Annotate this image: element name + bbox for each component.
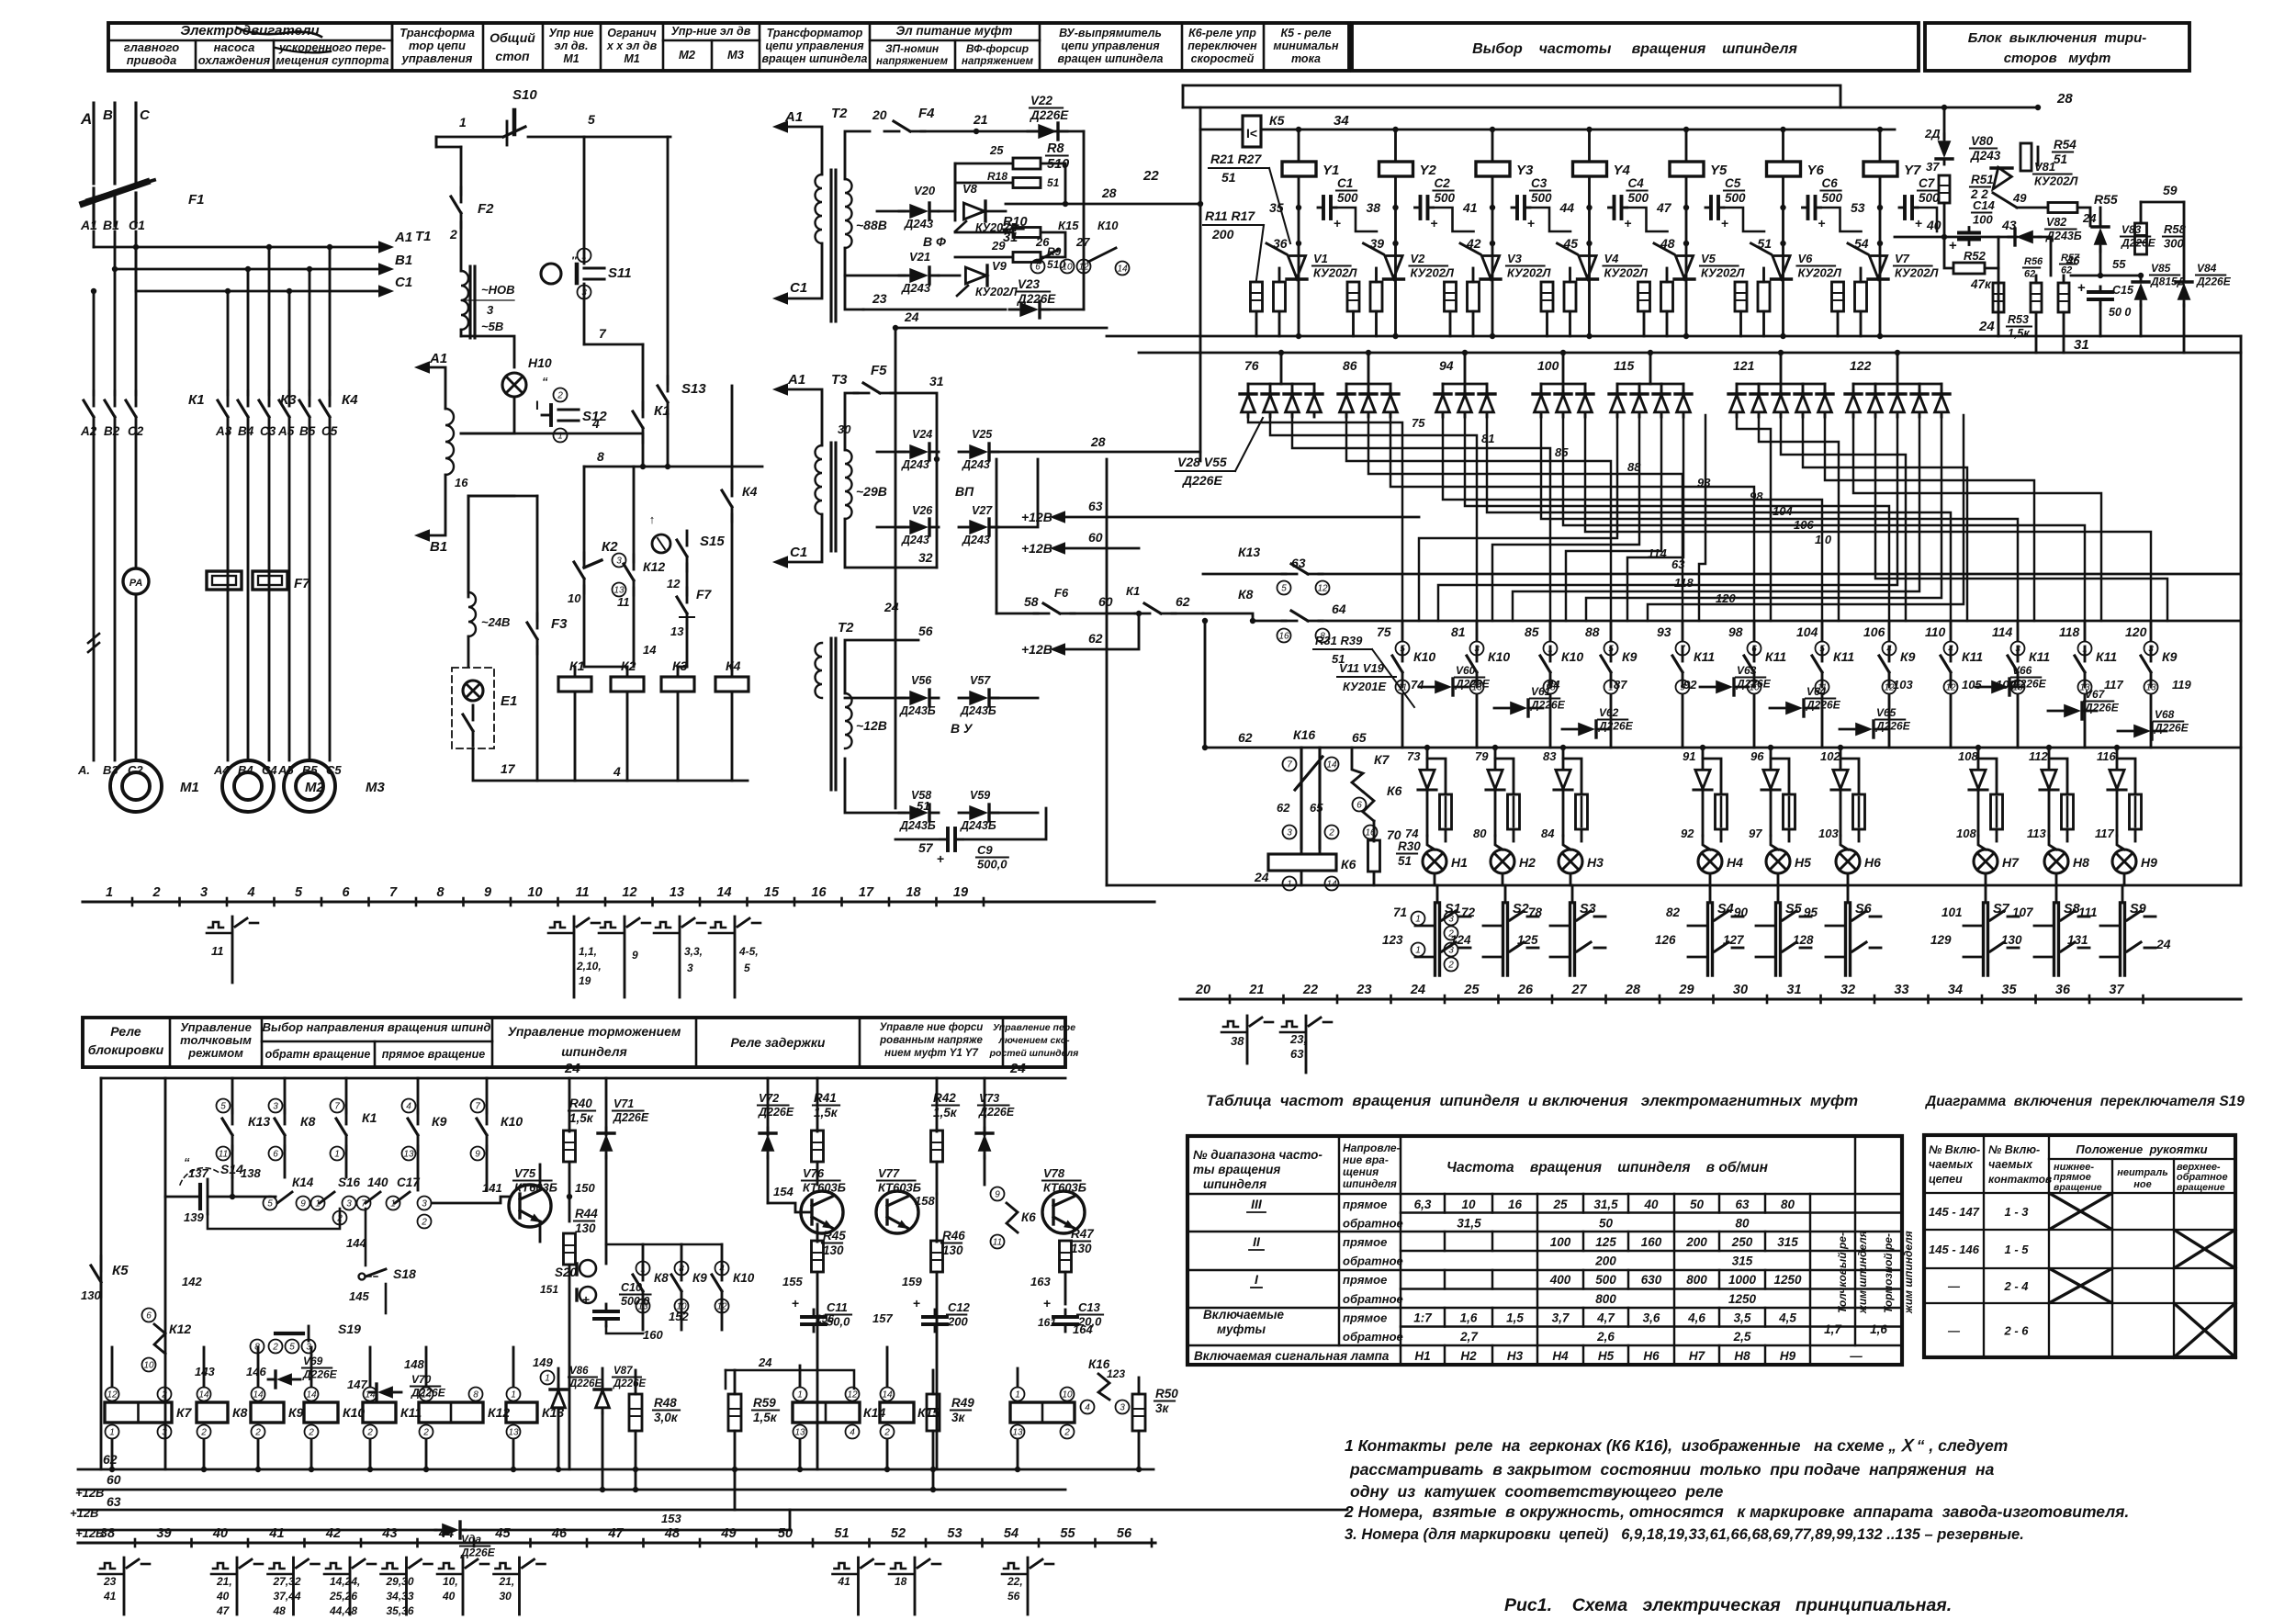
contact K4 feed bbox=[731, 514, 734, 670]
svg-text:Н10: Н10 bbox=[528, 355, 552, 370]
svg-text:S10: S10 bbox=[512, 87, 537, 103]
svg-text:75: 75 bbox=[1377, 624, 1391, 639]
svg-text:Д226Е: Д226Е bbox=[568, 1378, 602, 1389]
contact group at circuit 54 bbox=[1004, 1563, 1019, 1569]
svg-text:14: 14 bbox=[253, 1390, 264, 1401]
svg-text:К15: К15 bbox=[1058, 219, 1079, 232]
wire T1 left column bbox=[435, 137, 438, 147]
svg-text:1250: 1250 bbox=[1728, 1292, 1757, 1306]
contact F7 thermal bbox=[686, 564, 689, 595]
svg-text:К1: К1 bbox=[569, 658, 585, 673]
svg-text:2,7: 2,7 bbox=[1459, 1330, 1479, 1344]
svg-text:2,10,: 2,10, bbox=[576, 960, 602, 973]
svg-text:V77: V77 bbox=[878, 1166, 900, 1180]
svg-text:ты вращения: ты вращения bbox=[1193, 1163, 1280, 1176]
svg-text:2: 2 bbox=[1064, 1428, 1070, 1438]
break mark on A2 bbox=[88, 634, 99, 643]
diode V62 bbox=[1578, 723, 1595, 737]
svg-text:№ Вклю-: № Вклю- bbox=[1988, 1143, 2040, 1156]
svg-text:М3: М3 bbox=[366, 780, 385, 795]
svg-text:ВУ-выпрямитель: ВУ-выпрямитель bbox=[1059, 27, 1162, 39]
svg-text:48: 48 bbox=[273, 1604, 287, 1617]
contact group at circuit 41 bbox=[270, 1563, 285, 1569]
svg-text:V23: V23 bbox=[1018, 277, 1041, 291]
X mark row 2 bbox=[2174, 1230, 2235, 1268]
svg-text:V24: V24 bbox=[912, 428, 932, 441]
diode group node 122 bbox=[1853, 383, 1941, 386]
svg-text:К12: К12 bbox=[643, 559, 665, 574]
resistor R53 bbox=[1993, 283, 2004, 312]
svg-text:103: 103 bbox=[1818, 827, 1839, 840]
svg-text:V60: V60 bbox=[1456, 664, 1476, 677]
svg-text:57: 57 bbox=[918, 840, 934, 855]
svg-text:Д243Б: Д243Б bbox=[960, 819, 996, 832]
svg-text:обратное: обратное bbox=[1343, 1254, 1403, 1268]
lamp E1 in dashed box bbox=[452, 668, 494, 748]
svg-text:161: 161 bbox=[1038, 1316, 1056, 1329]
svg-text:+: + bbox=[1527, 216, 1535, 231]
svg-text:А1: А1 bbox=[394, 230, 412, 245]
svg-text:S15: S15 bbox=[700, 534, 725, 549]
svg-text:126: 126 bbox=[1655, 933, 1676, 947]
wire 28 top right bbox=[1183, 107, 2038, 109]
selector switch S1 bbox=[1436, 885, 1439, 903]
svg-text:62: 62 bbox=[1238, 730, 1253, 745]
svg-text:141: 141 bbox=[482, 1181, 502, 1195]
svg-text:К10: К10 bbox=[501, 1114, 523, 1129]
svg-text:КУ202Л: КУ202Л bbox=[975, 286, 1018, 298]
svg-text:Н1: Н1 bbox=[1451, 855, 1468, 870]
svg-text:28: 28 bbox=[1101, 186, 1117, 200]
svg-text:+: + bbox=[1334, 216, 1341, 231]
svg-text:73: 73 bbox=[1407, 749, 1421, 763]
svg-text:3,5: 3,5 bbox=[1734, 1311, 1751, 1325]
svg-text:3: 3 bbox=[422, 1199, 427, 1209]
wire mesh staircase bbox=[1248, 415, 1402, 621]
svg-text:500: 500 bbox=[1337, 191, 1358, 205]
svg-text:F2: F2 bbox=[478, 201, 494, 217]
svg-text:КУ201Е: КУ201Е bbox=[1343, 680, 1386, 693]
svg-text:Включаемые: Включаемые bbox=[1203, 1308, 1285, 1322]
svg-text:обратное: обратное bbox=[1343, 1217, 1403, 1231]
diode group node 115 bbox=[1617, 383, 1683, 386]
X mark row 3 bbox=[2049, 1268, 2112, 1303]
svg-text:тока: тока bbox=[1291, 52, 1321, 65]
svg-text:5: 5 bbox=[267, 1199, 273, 1209]
svg-text:К5: К5 bbox=[112, 1263, 129, 1278]
svg-text:4-5,: 4-5, bbox=[738, 945, 759, 958]
svg-text:9: 9 bbox=[632, 949, 638, 962]
svg-text:93: 93 bbox=[1697, 476, 1711, 489]
svg-text:56: 56 bbox=[1117, 1526, 1132, 1541]
svg-text:1000: 1000 bbox=[1728, 1273, 1757, 1287]
diode group node 94 bbox=[1443, 383, 1487, 386]
svg-text:120: 120 bbox=[2125, 624, 2147, 639]
transformer T2 secondary coil bbox=[845, 179, 852, 248]
svg-text:КУ202Л: КУ202Л bbox=[1411, 266, 1455, 280]
svg-text:17: 17 bbox=[501, 761, 516, 776]
contact K1 sym bbox=[345, 1078, 348, 1113]
svg-text:200: 200 bbox=[947, 1315, 968, 1329]
svg-text:1 0: 1 0 bbox=[1815, 533, 1832, 546]
svg-text:6: 6 bbox=[1035, 263, 1041, 273]
svg-text:30: 30 bbox=[1733, 983, 1748, 997]
svg-text:13: 13 bbox=[508, 1428, 519, 1438]
svg-text:80: 80 bbox=[1735, 1217, 1750, 1231]
svg-text:42: 42 bbox=[325, 1526, 341, 1541]
wire bus C1 bbox=[135, 231, 138, 291]
bus 31 bbox=[1139, 352, 2241, 354]
damping resistors R25 R15 bbox=[1638, 282, 1650, 311]
diode V60 bbox=[1435, 681, 1452, 694]
svg-text:800: 800 bbox=[1595, 1292, 1616, 1306]
wire from VU to right bbox=[1106, 459, 1109, 885]
svg-text:24: 24 bbox=[1410, 983, 1425, 997]
svg-text:А: А bbox=[80, 110, 92, 128]
diode V84 bbox=[2178, 283, 2191, 300]
relay K5 current coil bbox=[1200, 129, 1243, 131]
transformer T3 core bbox=[829, 443, 832, 551]
wire bottom of T1 section bbox=[473, 748, 748, 781]
svg-text:V26: V26 bbox=[912, 504, 933, 517]
diodes V58 V59 bbox=[845, 759, 905, 813]
svg-text:130: 130 bbox=[823, 1243, 844, 1257]
svg-text:жим шпинделя: жим шпинделя bbox=[1856, 1231, 1869, 1314]
svg-text:500: 500 bbox=[1725, 191, 1746, 205]
svg-text:24: 24 bbox=[564, 1061, 580, 1076]
svg-text:43: 43 bbox=[381, 1526, 397, 1541]
svg-text:28: 28 bbox=[2056, 91, 2073, 107]
svg-text:R11 R17: R11 R17 bbox=[1205, 208, 1255, 223]
svg-text:24: 24 bbox=[1009, 1061, 1026, 1076]
header cell: Блок выключения тиристоров муфт bbox=[1925, 23, 2189, 71]
svg-text:27,32: 27,32 bbox=[273, 1575, 301, 1588]
svg-text:~НОВ: ~НОВ bbox=[481, 283, 514, 297]
svg-text:2: 2 bbox=[308, 1428, 314, 1438]
svg-text:97: 97 bbox=[1749, 827, 1762, 840]
svg-text:27: 27 bbox=[1075, 235, 1090, 249]
svg-text:V20: V20 bbox=[914, 184, 936, 197]
svg-text:9: 9 bbox=[300, 1199, 306, 1209]
svg-text:Д226Е: Д226Е bbox=[2011, 678, 2047, 691]
svg-text:R48: R48 bbox=[654, 1396, 677, 1410]
svg-text:ростей шпинделя: ростей шпинделя bbox=[989, 1048, 1079, 1059]
damping resistors R24 R14 bbox=[1541, 282, 1553, 311]
svg-text:1: 1 bbox=[1415, 946, 1421, 956]
bus junction dots bbox=[109, 1467, 115, 1472]
capacitor C1 bbox=[1298, 176, 1300, 336]
svg-text:107: 107 bbox=[2012, 906, 2034, 919]
svg-text:А1: А1 bbox=[429, 351, 447, 366]
svg-text:V25: V25 bbox=[972, 428, 993, 441]
svg-text:прямое: прямое bbox=[1343, 1198, 1387, 1211]
svg-text:21,: 21, bbox=[216, 1575, 232, 1588]
svg-text:144: 144 bbox=[346, 1236, 366, 1250]
diode group node 121 bbox=[1737, 383, 1825, 386]
svg-text:К1: К1 bbox=[1126, 584, 1140, 598]
svg-text:88: 88 bbox=[1627, 460, 1641, 474]
svg-text:Д243: Д243 bbox=[901, 534, 929, 546]
svg-text:2: 2 bbox=[161, 1390, 167, 1401]
svg-text:Выбор направления вращения шп: Выбор направления вращения шпинд bbox=[263, 1020, 491, 1034]
wire bus B1 bbox=[114, 231, 117, 269]
wire to node 3 bbox=[461, 299, 514, 301]
svg-text:S20: S20 bbox=[555, 1266, 578, 1279]
svg-text:1: 1 bbox=[459, 115, 467, 129]
svg-text:148: 148 bbox=[404, 1357, 424, 1371]
svg-text:К6: К6 bbox=[1387, 783, 1402, 798]
wire node 4 bbox=[461, 433, 643, 435]
svg-text:51: 51 bbox=[2054, 152, 2067, 166]
svg-text:лючением ско-: лючением ско- bbox=[997, 1035, 1070, 1046]
svg-text:20: 20 bbox=[1195, 983, 1210, 997]
svg-text:С1: С1 bbox=[1337, 176, 1353, 190]
svg-text:переключен: переключен bbox=[1187, 39, 1257, 52]
svg-text:режимом: режимом bbox=[187, 1046, 243, 1060]
bus 24 top of control section bbox=[101, 1077, 1065, 1080]
circuit number scale 38-56 bbox=[78, 1541, 1155, 1544]
thyristor V81 bbox=[2037, 147, 2040, 165]
svg-text:11: 11 bbox=[575, 885, 589, 900]
svg-text:К6: К6 bbox=[1021, 1210, 1036, 1224]
svg-text:121: 121 bbox=[1733, 358, 1755, 373]
svg-text:138: 138 bbox=[241, 1166, 261, 1180]
svg-text:Д243: Д243 bbox=[901, 458, 929, 471]
svg-text:47: 47 bbox=[1656, 200, 1672, 215]
svg-text:В1: В1 bbox=[103, 218, 119, 232]
svg-text:F3: F3 bbox=[551, 616, 568, 632]
svg-text:шпинделя: шпинделя bbox=[1343, 1179, 1397, 1190]
svg-text:21: 21 bbox=[973, 112, 988, 127]
svg-text:Н3: Н3 bbox=[1507, 1349, 1524, 1363]
svg-text:54: 54 bbox=[1004, 1526, 1019, 1541]
svg-text:Н5: Н5 bbox=[1598, 1349, 1615, 1363]
contact group 1,1 2,10 19 bbox=[550, 922, 565, 928]
electromagnetic clutch coil Y5 bbox=[1683, 127, 1689, 132]
svg-text:125: 125 bbox=[1517, 933, 1538, 947]
svg-text:34: 34 bbox=[1334, 113, 1349, 129]
selector switch S8 bbox=[2055, 885, 2058, 903]
svg-text:В4: В4 bbox=[238, 424, 254, 438]
svg-text:2: 2 bbox=[152, 885, 160, 900]
svg-text:С14: С14 bbox=[1973, 198, 1996, 212]
svg-text:С7: С7 bbox=[1919, 176, 1936, 190]
svg-text:28: 28 bbox=[1090, 434, 1106, 449]
transformer T2b secondary ~12V bbox=[845, 693, 852, 748]
svg-text:2,5: 2,5 bbox=[1733, 1330, 1751, 1344]
svg-text:V27: V27 bbox=[972, 504, 993, 517]
svg-text:1: 1 bbox=[545, 1374, 550, 1384]
svg-text:27: 27 bbox=[1570, 983, 1587, 997]
header cell: Выбор частоты вращения шпинделя bbox=[1352, 23, 1919, 71]
svg-text:А1: А1 bbox=[784, 109, 803, 125]
svg-text:С1: С1 bbox=[790, 280, 807, 296]
svg-text:14: 14 bbox=[306, 1390, 317, 1401]
svg-text:щения: щения bbox=[1343, 1165, 1379, 1178]
svg-text:М1: М1 bbox=[563, 52, 579, 65]
svg-text:3к: 3к bbox=[951, 1411, 966, 1424]
svg-text:84: 84 bbox=[1547, 678, 1560, 692]
svg-text:прямое: прямое bbox=[1343, 1311, 1387, 1325]
contact K5 blocking bbox=[100, 1282, 103, 1297]
svg-text:2: 2 bbox=[1447, 929, 1454, 939]
svg-text:400: 400 bbox=[1549, 1273, 1571, 1287]
svg-text:сторов муфт: сторов муфт bbox=[2004, 51, 2111, 66]
svg-text:10: 10 bbox=[527, 885, 542, 900]
svg-text:К11: К11 bbox=[2096, 649, 2117, 664]
svg-text:цепеи: цепеи bbox=[1929, 1173, 1963, 1186]
svg-text:79: 79 bbox=[1475, 749, 1489, 763]
contact group at circuit 44 bbox=[439, 1563, 454, 1569]
resistor R59 bbox=[728, 1394, 741, 1431]
diode V83 bbox=[2094, 228, 2108, 245]
motor feeder wires bbox=[93, 428, 96, 760]
svg-text:Напровле-: Напровле- bbox=[1343, 1142, 1401, 1154]
svg-text:Д226Е: Д226Е bbox=[2084, 702, 2120, 714]
svg-text:V81: V81 bbox=[2034, 160, 2055, 174]
svg-text:130: 130 bbox=[575, 1221, 596, 1235]
svg-text:12: 12 bbox=[622, 885, 636, 900]
svg-text:9: 9 bbox=[475, 1150, 480, 1160]
svg-text:контактов: контактов bbox=[1988, 1173, 2052, 1186]
svg-text:чаемых: чаемых bbox=[1988, 1158, 2033, 1171]
svg-text:56: 56 bbox=[1007, 1590, 1020, 1603]
svg-text:↑: ↑ bbox=[649, 512, 656, 526]
svg-text:4: 4 bbox=[850, 1428, 855, 1438]
svg-text:К13: К13 bbox=[1238, 545, 1260, 559]
svg-text:500: 500 bbox=[1822, 191, 1843, 205]
svg-text:58: 58 bbox=[1024, 594, 1039, 609]
svg-text:500 0: 500 0 bbox=[621, 1295, 649, 1308]
transformer T3 primary bbox=[816, 445, 823, 514]
svg-text:привода: привода bbox=[127, 53, 177, 67]
relay coil К8 bbox=[197, 1402, 228, 1423]
svg-text:Д243: Д243 bbox=[904, 217, 934, 231]
svg-text:Н5: Н5 bbox=[1795, 855, 1811, 870]
svg-text:III: III bbox=[1251, 1197, 1263, 1211]
svg-text:5: 5 bbox=[744, 962, 750, 974]
svg-text:~5В: ~5В bbox=[481, 320, 503, 333]
svg-text:51: 51 bbox=[834, 1526, 849, 1541]
svg-text:V5: V5 bbox=[1701, 252, 1716, 265]
svg-text:13: 13 bbox=[670, 624, 684, 638]
resistor R50 bbox=[1132, 1394, 1145, 1431]
svg-text:7: 7 bbox=[334, 1102, 340, 1112]
svg-text:+: + bbox=[1625, 216, 1632, 231]
contact group at circuit 38 bbox=[100, 1563, 115, 1569]
svg-text:2: 2 bbox=[884, 1428, 890, 1438]
svg-text:Н9: Н9 bbox=[2141, 855, 2157, 870]
svg-text:96: 96 bbox=[1750, 749, 1764, 763]
svg-text:вращен шпиндела: вращен шпиндела bbox=[1058, 52, 1164, 65]
svg-text:85: 85 bbox=[1525, 624, 1539, 639]
svg-text:К4: К4 bbox=[342, 392, 358, 408]
damping resistors R27 R17 bbox=[1832, 282, 1844, 311]
svg-text:24: 24 bbox=[904, 309, 919, 324]
svg-text:Д226Е: Д226Е bbox=[1530, 699, 1566, 712]
svg-text:24: 24 bbox=[1978, 319, 1995, 334]
svg-text:Н8: Н8 bbox=[1734, 1349, 1750, 1363]
svg-text:К10: К10 bbox=[1097, 219, 1119, 232]
svg-text:3: 3 bbox=[1448, 946, 1454, 956]
S19 cam switch bbox=[276, 1332, 303, 1335]
svg-text:Н2: Н2 bbox=[1460, 1349, 1477, 1363]
svg-text:5: 5 bbox=[289, 1343, 295, 1353]
damping resistors R26 R16 bbox=[1735, 282, 1747, 311]
selector switch S2 bbox=[1504, 885, 1507, 903]
svg-text:К5 - реле: К5 - реле bbox=[1280, 27, 1331, 39]
svg-text:рованным напряже: рованным напряже bbox=[879, 1035, 983, 1046]
svg-text:обратное: обратное bbox=[1343, 1292, 1403, 1306]
svg-text:1:7: 1:7 bbox=[1413, 1311, 1433, 1325]
svg-text:+12В: +12В bbox=[70, 1506, 98, 1520]
svg-text:С12: С12 bbox=[948, 1300, 971, 1314]
svg-text:24: 24 bbox=[758, 1356, 772, 1369]
relay coil K2 bbox=[611, 677, 644, 692]
electromagnetic clutch coil Y7 bbox=[1877, 127, 1883, 132]
svg-text:81: 81 bbox=[1451, 624, 1466, 639]
relay coil K16 bbox=[1010, 1402, 1075, 1423]
resistor R30 bbox=[1373, 821, 1376, 841]
+12V stub 62 bbox=[1050, 643, 1065, 655]
svg-text:М3: М3 bbox=[727, 48, 745, 62]
svg-text:4: 4 bbox=[1085, 1403, 1090, 1413]
svg-text:130: 130 bbox=[942, 1243, 963, 1257]
svg-text:3: 3 bbox=[273, 1102, 278, 1112]
svg-text:КУ202Л: КУ202Л bbox=[2034, 174, 2078, 188]
svg-text:V73: V73 bbox=[979, 1092, 999, 1105]
svg-text:V85: V85 bbox=[2151, 262, 2171, 275]
svg-text:R21 R27: R21 R27 bbox=[1210, 152, 1262, 166]
resistor R8 bbox=[955, 163, 1012, 211]
svg-text:630: 630 bbox=[1641, 1273, 1662, 1287]
svg-text:315: 315 bbox=[1732, 1254, 1753, 1268]
svg-text:11: 11 bbox=[211, 944, 224, 958]
svg-text:Эл питание муфт: Эл питание муфт bbox=[896, 24, 1013, 38]
svg-text:V57: V57 bbox=[970, 674, 991, 687]
svg-text:F7: F7 bbox=[696, 587, 713, 602]
svg-text:14: 14 bbox=[198, 1390, 209, 1401]
svg-text:КУ202Л: КУ202Л bbox=[1701, 266, 1745, 280]
svg-text:—: — bbox=[1849, 1349, 1863, 1363]
svg-text:500: 500 bbox=[1435, 191, 1456, 205]
svg-text:V87: V87 bbox=[613, 1366, 633, 1377]
svg-text:8: 8 bbox=[473, 1390, 478, 1401]
svg-text:К11: К11 bbox=[1962, 649, 1983, 664]
diode V20 bbox=[877, 210, 905, 213]
svg-text:3: 3 bbox=[616, 557, 622, 567]
node 7 wire bbox=[584, 343, 643, 346]
svg-text:К6: К6 bbox=[1341, 857, 1356, 872]
svg-text:С15: С15 bbox=[2112, 284, 2134, 297]
svg-text:Н1: Н1 bbox=[1414, 1349, 1430, 1363]
svg-text:114: 114 bbox=[1648, 546, 1667, 560]
svg-text:38: 38 bbox=[1231, 1034, 1244, 1048]
svg-text:~29В: ~29В bbox=[856, 484, 887, 499]
circuit breaker F1 bbox=[83, 182, 147, 204]
svg-text:1: 1 bbox=[557, 432, 563, 442]
wire bus A1 bbox=[93, 231, 96, 247]
X mark row 1 bbox=[2049, 1193, 2112, 1230]
svg-text:500: 500 bbox=[1595, 1273, 1616, 1287]
svg-text:4: 4 bbox=[613, 764, 621, 779]
svg-text:насоса: насоса bbox=[214, 40, 255, 54]
svg-text:1: 1 bbox=[334, 1150, 340, 1160]
svg-text:2 - 4: 2 - 4 bbox=[2003, 1279, 2029, 1293]
svg-text:Н6: Н6 bbox=[1864, 855, 1881, 870]
svg-text:160: 160 bbox=[643, 1328, 663, 1342]
svg-text:115: 115 bbox=[1614, 358, 1635, 373]
